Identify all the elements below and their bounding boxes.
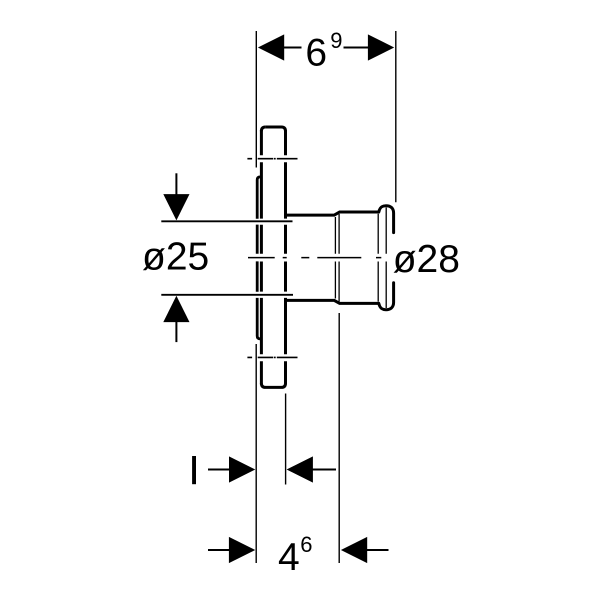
rim bead thin line 1 [377,214,379,302]
svg-text:6: 6 [300,532,312,557]
step edge thin line 2 [338,214,340,302]
flange top edge [266,127,286,131]
dimension 4/6 right arrowhead [341,537,367,563]
rim bead thin line 2 [385,208,387,309]
svg-text:ø28: ø28 [393,238,460,281]
dimension 6/9 top: right arrowhead [368,34,394,60]
dimension 6/9 top: right tail line [344,47,369,49]
svg-text:9: 9 [330,28,342,53]
dimension 4/6 right tail [367,549,389,551]
bottom middle extension line (flange front face) [285,394,287,485]
step edge thin line 1 [334,217,336,299]
socket lower outline: left section, step, right section, bottom rim curl [286,300,380,303]
dimension 6/9 top: left extension line [255,31,257,168]
svg-text:ø25: ø25 [142,235,209,278]
bolt hole center line top (dash-dot across flange) [247,158,297,160]
dimension 6/9 top: left arrowhead [258,34,284,60]
svg-text:4: 4 [278,536,300,579]
socket upper outline: left section, step, right section, top rim curl [286,212,380,215]
dimension I label [192,456,196,484]
dia 25 lower arrow (pointing up) [175,322,177,342]
dimension I right tail [312,469,336,471]
dimension 4/6 left arrowhead [229,537,255,563]
bolt hole center line bottom (dash-dot across flange) [247,356,297,358]
dimension 6/9 top: left tail line [284,47,302,49]
dimension I left arrowhead [229,456,255,482]
svg-text:6: 6 [305,32,327,75]
flange left edge (with gaps at crossing lines) [260,130,263,384]
flange bottom edge [261,383,285,387]
dia 25 upper arrow (pointing down) [175,173,177,194]
center axis line (dash-dot) [248,257,381,259]
dimension 6/9 top: right extension line [395,31,397,202]
bottom left extension line (flange back face) [255,344,257,563]
dimension 4/6 left tail [208,549,230,551]
dia 25 lower extension line [161,294,293,296]
bottom right extension line (socket step) [338,313,340,563]
dimension I right arrowhead [287,456,313,482]
dimension I left tail [208,469,230,471]
collar behind flange (left thin disc) [257,177,261,339]
flange right edge (with gaps at crossing lines) [284,130,287,384]
dia 25 upper extension line [161,220,292,222]
